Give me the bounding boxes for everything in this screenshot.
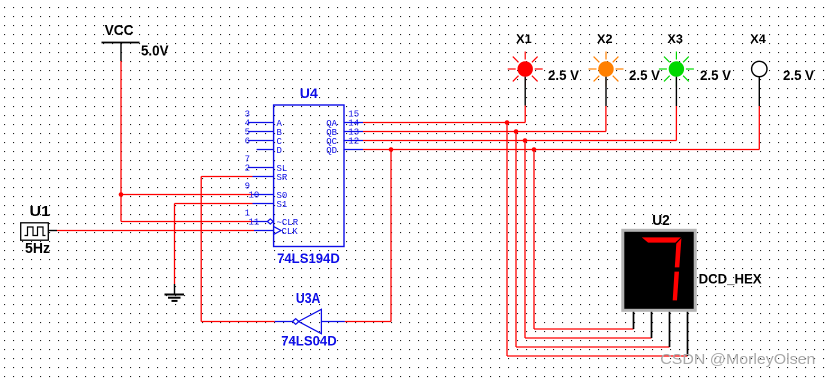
wire QB bbox=[363, 106, 670, 347]
svg-text:CSDN @MorleyOlsen: CSDN @MorleyOlsen bbox=[660, 351, 815, 368]
svg-text:U1: U1 bbox=[30, 203, 51, 220]
svg-text:VCC: VCC bbox=[105, 22, 134, 39]
svg-text:74LS04D: 74LS04D bbox=[281, 333, 337, 348]
svg-text:U3A: U3A bbox=[296, 290, 321, 307]
pin stubs right bbox=[344, 123, 363, 150]
LED probe X4 bbox=[750, 33, 814, 106]
svg-text:5.0V: 5.0V bbox=[141, 43, 169, 60]
wire S1 to ground bbox=[175, 204, 253, 285]
pin numbers bbox=[245, 110, 360, 228]
LED probe X3 bbox=[659, 33, 731, 106]
svg-text:10: 10 bbox=[249, 191, 260, 201]
wire QD bbox=[363, 106, 759, 329]
svg-text:U4: U4 bbox=[300, 85, 318, 101]
clock source U1 bbox=[21, 203, 57, 257]
svg-text:6: 6 bbox=[245, 137, 250, 147]
wire QA bbox=[363, 106, 688, 357]
display U2 DCD_HEX bbox=[621, 212, 761, 312]
junction QA bbox=[505, 120, 510, 125]
IC U4 74LS194D bbox=[274, 85, 344, 266]
power VCC bbox=[102, 22, 169, 61]
segment c bbox=[673, 272, 679, 301]
segment b bbox=[675, 238, 682, 267]
op-amp U3A inverter 74LS04D bbox=[275, 290, 345, 349]
svg-text:QD: QD bbox=[326, 146, 337, 156]
svg-text:11: 11 bbox=[249, 218, 260, 228]
junction VCC/S0 bbox=[119, 192, 124, 197]
wire inverter input to QD bbox=[345, 150, 391, 322]
svg-text:2.5 V: 2.5 V bbox=[783, 68, 814, 83]
svg-text:X3: X3 bbox=[667, 33, 683, 46]
pin stubs left bbox=[248, 123, 281, 235]
junction QD/inverter bbox=[389, 147, 394, 152]
svg-text:U2: U2 bbox=[652, 212, 670, 229]
LED probe X1 bbox=[508, 33, 579, 106]
junction QC bbox=[523, 138, 528, 143]
wire U1 to CLK bbox=[57, 230, 254, 232]
svg-text:X2: X2 bbox=[597, 33, 613, 46]
LED probe X2 bbox=[589, 33, 661, 106]
svg-text:2: 2 bbox=[245, 164, 250, 174]
wire VCC to S0/CLR bbox=[121, 61, 253, 222]
svg-text:CLK: CLK bbox=[282, 227, 299, 237]
svg-text:X1: X1 bbox=[516, 33, 532, 46]
wire inverter output to SR bbox=[201, 177, 275, 322]
segment a bbox=[642, 237, 681, 242]
junction QB bbox=[514, 129, 519, 134]
svg-text:2.5 V: 2.5 V bbox=[548, 68, 579, 83]
svg-text:2.5 V: 2.5 V bbox=[700, 68, 731, 83]
svg-text:S1: S1 bbox=[277, 200, 288, 210]
svg-text:12: 12 bbox=[348, 137, 359, 147]
ground bbox=[165, 284, 185, 301]
junction QD bbox=[532, 147, 537, 152]
display pins bbox=[634, 312, 688, 356]
svg-text:5Hz: 5Hz bbox=[25, 240, 50, 257]
svg-text:74LS194D: 74LS194D bbox=[277, 250, 340, 266]
svg-text:X4: X4 bbox=[750, 33, 766, 46]
wire QC bbox=[363, 106, 676, 338]
svg-text:D: D bbox=[277, 146, 282, 156]
svg-text:SR: SR bbox=[277, 173, 288, 183]
svg-text:2.5 V: 2.5 V bbox=[629, 68, 660, 83]
pin names bbox=[277, 119, 338, 237]
svg-text:DCD_HEX: DCD_HEX bbox=[699, 271, 762, 286]
